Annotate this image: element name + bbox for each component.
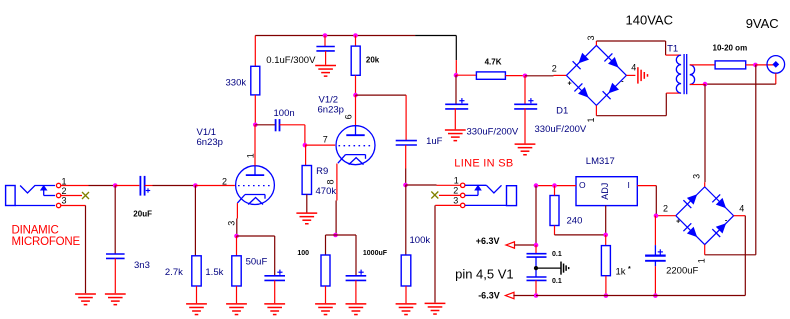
svg-text:10-20 om: 10-20 om (713, 44, 748, 53)
wire D1 pin1 down (595, 105, 597, 115)
label 1000uF (363, 250, 388, 257)
svg-text:+: + (568, 81, 572, 88)
label R9 (316, 166, 328, 177)
svg-text:3: 3 (226, 221, 236, 226)
wire 2200uF to rail (654, 266, 656, 294)
wire node A to C 20uF (115, 185, 139, 187)
pin 3 label V1/1 rotated (226, 221, 236, 226)
wire V1/2 cathode run (335, 201, 337, 236)
wire node B to grid V1/1 (195, 185, 235, 187)
label 140VAC (626, 13, 673, 28)
wire D2 pin2 stub (658, 215, 676, 217)
tube triode V1/1 (236, 166, 275, 205)
svg-text:-: - (621, 79, 624, 86)
wire node E to C 50uF (237, 236, 275, 276)
pin 3 label D2 rotated (692, 174, 702, 179)
wire C 0.1 bottom to rail (535, 280, 537, 293)
wire node L to D2 pin3 (704, 84, 706, 182)
svg-text:100k: 100k (410, 235, 431, 246)
wire D1 pin1 to T1 (596, 93, 666, 116)
svg-text:20uF: 20uF (133, 210, 152, 219)
resistor 2.7k (192, 256, 201, 286)
label 1k (616, 267, 626, 278)
wire C20uF red stub (145, 185, 153, 187)
plus label D1 (568, 81, 572, 88)
wire LM317 out (536, 185, 576, 187)
wire node J to C 330uF-2 (524, 76, 526, 104)
wire jack pin1 to node A (61, 185, 89, 187)
plus label D2 (676, 219, 680, 226)
node G junction anode V1/2 (353, 93, 358, 98)
pin O label (579, 180, 586, 190)
wire D2 pin1 stub (704, 245, 706, 255)
svg-text:1: 1 (454, 176, 459, 186)
wire node C to C 100n (255, 124, 275, 126)
resistor 1k* (601, 246, 610, 276)
svg-text:*: * (628, 266, 631, 273)
ground R9 (296, 213, 317, 224)
wire 3n3 to ground (114, 258, 116, 293)
ground 330uF-1 (445, 130, 466, 141)
capacitor 50uF (264, 270, 285, 281)
resistor 4.7K (476, 72, 505, 79)
pin 1 label D1 rotated (586, 117, 596, 122)
wire V1/2 pin8 down (336, 164, 338, 201)
capacitor 0.1uF/300V (316, 47, 334, 51)
svg-text:470k: 470k (316, 186, 337, 197)
wire into T1 primary bottom (666, 92, 681, 94)
ground 0.1uF (315, 66, 336, 77)
svg-text:100: 100 (297, 250, 309, 257)
svg-text:1.5k: 1.5k (205, 267, 223, 278)
wire V1/1 cathode run (236, 219, 238, 237)
ground D1 pin4 (638, 67, 648, 83)
pin 2 label D1 (552, 64, 557, 74)
wire node K to plug (755, 64, 775, 66)
wire 100n to node D (280, 125, 305, 145)
label 100k (410, 235, 431, 246)
label 330k (226, 77, 247, 88)
svg-text:-6.3V: -6.3V (478, 291, 500, 301)
ground 3n3 (105, 294, 126, 305)
svg-text:2: 2 (453, 186, 458, 196)
label 100n (274, 108, 295, 119)
label 2200uF (666, 266, 698, 277)
wire down to C 1uF (405, 95, 407, 140)
node C junction (253, 123, 258, 128)
svg-text:1: 1 (696, 258, 706, 263)
pin 1 label J2 (454, 176, 459, 186)
wire node A to C 3n3 (114, 186, 116, 254)
svg-text:6n23p: 6n23p (318, 105, 344, 116)
wire negative rail (536, 295, 745, 297)
svg-text:I: I (628, 180, 630, 190)
label LINE IN SB (454, 157, 513, 169)
ground 100 (315, 304, 336, 315)
svg-text:4: 4 (631, 63, 636, 73)
wire D2 pin4 down (744, 216, 746, 296)
wire 330k to node C (254, 95, 256, 125)
wire D1 pin4 stub (626, 74, 635, 76)
label 330uF/200V first (467, 126, 519, 137)
capacitor 0.1 bottom (527, 277, 547, 280)
wire 1k to rail (605, 276, 607, 294)
wire D1 pin3 up (595, 41, 597, 45)
svg-text:3n3: 3n3 (134, 260, 150, 271)
wire 1000uF to ground (355, 280, 357, 303)
ground 50uF (264, 304, 285, 315)
pin 2 label D2 (663, 204, 668, 214)
label 20k (366, 55, 380, 64)
capacitor 1uF (396, 141, 417, 145)
wire node F to C 330uF-1 (455, 75, 457, 104)
svg-text:O: O (579, 180, 586, 190)
label 240 (567, 215, 583, 226)
wire -6.3V (513, 295, 534, 297)
svg-text:R9: R9 (316, 166, 328, 177)
tube triode V1/2 (336, 126, 375, 165)
pin 2 label V1/1 (222, 176, 227, 186)
bridge rectifier D1 (566, 45, 626, 105)
pin 8 label V1/2 rotated (325, 179, 335, 184)
wire node I to R 100k (405, 185, 407, 255)
node J junction (523, 74, 528, 79)
label 4.7K (485, 58, 502, 67)
svg-text:2.7k: 2.7k (165, 267, 183, 278)
minus label D1 (621, 79, 624, 86)
pin 3 label J2 (453, 195, 458, 205)
ground heater mid (561, 262, 569, 275)
wire 330uF-1 to ground (454, 108, 456, 129)
label star (628, 266, 631, 273)
wire out down (535, 186, 537, 243)
svg-text:4.7K: 4.7K (485, 58, 502, 67)
capacitor 20uF input (140, 176, 150, 196)
pin 1 label D2 rotated (696, 258, 706, 263)
svg-text:6n23p: 6n23p (197, 137, 223, 148)
wire 2.7k to ground (196, 286, 198, 303)
node D junction (303, 143, 308, 148)
wire 10-20om to node K (746, 64, 754, 66)
wire J2 pin2 stub (439, 194, 460, 196)
resistor 100k (401, 255, 411, 286)
node T heater mid (534, 266, 538, 270)
node L junction T1 sec bottom (703, 82, 708, 87)
no-connect X jack pin2 (82, 192, 89, 199)
node A junction (113, 183, 118, 188)
transformer T1 (676, 54, 694, 94)
svg-text:D1: D1 (556, 106, 568, 117)
minus label D2 (725, 217, 728, 224)
svg-text:330uF/200V: 330uF/200V (467, 126, 519, 137)
svg-text:1000uF: 1000uF (363, 250, 388, 257)
node B junction (193, 183, 198, 188)
wire V1/1 pin3 down (236, 203, 238, 218)
node rail 0.1uF (323, 33, 328, 38)
label -6.3V (478, 291, 500, 301)
pin 1 label (62, 177, 67, 187)
svg-text:330uF/200V: 330uF/200V (535, 124, 587, 135)
label 6n23p V1/2 (318, 105, 344, 116)
svg-text:2200uF: 2200uF (666, 266, 698, 277)
wire jack pin2 stub (61, 195, 82, 197)
node Q junction ADJ (603, 233, 608, 238)
wire node C to V1/1 anode (254, 125, 256, 166)
svg-text:2: 2 (663, 204, 668, 214)
node N junction 240 top (552, 183, 557, 188)
wire into T1 primary top (666, 54, 681, 56)
pin 1 label V1/1 rotated (245, 153, 255, 158)
wire 100k to ground (405, 286, 407, 303)
resistor 1.5k (232, 256, 241, 286)
wire 0.1uF to ground (325, 51, 327, 65)
svg-text:6: 6 (344, 114, 354, 119)
node K junction 9VAC (753, 63, 758, 68)
label LM317 (586, 156, 615, 167)
wire B+ rail (255, 35, 415, 37)
svg-text:+6.3V: +6.3V (476, 236, 500, 246)
capacitor 100n (276, 119, 280, 131)
wire jack pin3 down (85, 206, 87, 294)
node U junction rail -6.3 (534, 293, 539, 298)
capacitor 3n3 (106, 254, 125, 258)
wire B+ rail black part (415, 36, 456, 61)
wire 1uF to node I (405, 169, 407, 186)
wire D2 pin4 stub (734, 215, 746, 217)
wire 240 top stub (554, 186, 556, 196)
label 0.1uF/300V (266, 55, 316, 66)
ground 100k (396, 304, 417, 315)
pin 4 label D2 (739, 203, 744, 213)
svg-text:3: 3 (692, 174, 702, 179)
wire jack pin3 (61, 205, 86, 207)
wire node G to V1/2 anode (355, 95, 357, 126)
wire node H to C 1000uF (336, 235, 357, 276)
node E junction cathode V1/1 (234, 234, 239, 239)
label MICROFONE (12, 236, 81, 248)
resistor 240 (550, 196, 559, 226)
node F junction B+ (454, 73, 459, 78)
regulator U1 LM317 (576, 177, 637, 206)
wire to LINE jack pin1 (437, 184, 461, 186)
wire ADJ node to 1k (605, 235, 607, 246)
resistor 100 (321, 255, 330, 286)
wire 50uF to ground (274, 280, 276, 303)
capacitor 1000uF (346, 270, 367, 281)
pin 7 label V1/2 (323, 135, 328, 145)
svg-text:0.1: 0.1 (552, 278, 562, 285)
wire node J to bridge D1 (525, 75, 554, 77)
resistor R9 470k (302, 166, 311, 195)
svg-text:7: 7 (323, 135, 328, 145)
svg-text:240: 240 (567, 215, 583, 226)
wire plug sleeve to node L (705, 83, 776, 85)
wire node A run (89, 185, 116, 187)
label 6n23p V1/1 (197, 137, 223, 148)
wire in down (655, 186, 657, 214)
label pin 4,5 V1 (455, 266, 514, 281)
no-connect X J2 pin2 (431, 192, 438, 199)
ground 330uF-2 (515, 144, 536, 155)
capacitor 2200uF (645, 245, 666, 266)
label +6.3V (476, 236, 500, 246)
pin I label (628, 180, 630, 190)
label V1/2 (319, 94, 339, 105)
wire node P to C 0.1 top (535, 245, 537, 253)
wire to D2 pin1 (705, 254, 756, 256)
capacitor 0.1 top (527, 254, 547, 257)
svg-text:LM317: LM317 (586, 156, 615, 167)
ground 2.7k (186, 304, 207, 315)
node R junction rail 1k (604, 293, 609, 298)
label 9VAC (746, 16, 779, 31)
wire 330uF-2 to ground (524, 108, 526, 143)
svg-text:2: 2 (222, 176, 227, 186)
wire C20uF to node B (153, 185, 196, 187)
label 3n3 (134, 260, 150, 271)
connector 9VAC plug (767, 56, 785, 74)
svg-text:20k: 20k (366, 55, 380, 64)
wire node K down (755, 65, 757, 255)
resistor 330k (251, 66, 260, 95)
wire D1 pin3 to T1 (596, 41, 665, 55)
svg-text:4: 4 (739, 203, 744, 213)
wire ADJ down (605, 206, 607, 234)
label 10-20 om (713, 44, 748, 53)
capacitor 330uF/200V first (445, 98, 468, 109)
wire 240 to ADJ node (555, 234, 604, 236)
wire node B down to R 2.7k (194, 186, 196, 256)
wire rail to C 0.1uF (324, 36, 326, 47)
node O junction out corner (534, 183, 539, 188)
label V1/1 (197, 127, 217, 138)
node I junction output (403, 183, 408, 188)
svg-text:9VAC: 9VAC (746, 16, 779, 31)
svg-text:3: 3 (453, 195, 458, 205)
wire T1 sec top (690, 64, 715, 66)
wire bridge D1 pin2 stub (554, 74, 567, 76)
wire rail to R 330k (254, 36, 256, 67)
bridge rectifier D2 (676, 187, 734, 245)
wire LM317 in (637, 185, 656, 187)
svg-text:pin 4,5 V1: pin 4,5 V1 (455, 266, 514, 281)
wire node H to R 100 (326, 235, 336, 255)
wire rail to R 20k (355, 36, 357, 47)
svg-text:1: 1 (586, 117, 596, 122)
node P junction +6.3V (534, 243, 539, 248)
wire T1 sec bottom (690, 84, 705, 86)
label D1 (556, 106, 568, 117)
wire node I to jack (406, 184, 437, 186)
label 330uF/200V second (535, 124, 587, 135)
arrow -6.3V (505, 292, 514, 298)
ground 1.5k (226, 304, 247, 315)
ground heater mid wire (536, 267, 561, 269)
label 0.1 bottom (552, 278, 562, 285)
svg-text:LINE IN SB: LINE IN SB (454, 157, 513, 169)
wire 100 to ground (325, 286, 327, 303)
svg-text:1k: 1k (616, 267, 626, 278)
wire R9 to ground (306, 194, 308, 212)
svg-text:3: 3 (62, 196, 67, 206)
connector J2 line in (461, 183, 517, 207)
arrow +6.3V (506, 242, 515, 248)
svg-text:0.1uF/300V: 0.1uF/300V (266, 55, 316, 66)
wire J2 pin3 (435, 204, 460, 206)
node rail 20k (353, 33, 358, 38)
wire heater mid (535, 257, 537, 277)
resistor 20k (351, 46, 360, 75)
pin 2 label J2 (453, 186, 458, 196)
wire 1uF down (405, 145, 407, 168)
wire node D to R9 (305, 145, 307, 165)
label T1 (667, 43, 678, 54)
svg-text:ADJ: ADJ (600, 183, 610, 200)
svg-text:8: 8 (325, 179, 335, 184)
wire 1.5k to ground (236, 286, 238, 303)
svg-text:3: 3 (586, 35, 596, 40)
svg-text:1uF: 1uF (426, 136, 443, 147)
wire 240 bottom (554, 226, 556, 235)
svg-text:140VAC: 140VAC (626, 13, 673, 28)
wire D2 pin3 stub (704, 182, 706, 187)
ground jack sleeve (75, 294, 96, 305)
wire +6.3V (515, 244, 535, 246)
wire node M to C 2200uF (654, 216, 656, 245)
pin 3 label (62, 196, 67, 206)
svg-text:+: + (676, 219, 680, 226)
svg-text:MICROFONE: MICROFONE (12, 236, 81, 248)
pin 4 label D1 (631, 63, 636, 73)
resistor 10-20 om (715, 61, 746, 69)
connector J1 microphone jack (6, 183, 61, 207)
capacitor 330uF/200V second (514, 98, 537, 109)
label 0.1 top (552, 251, 562, 258)
label 470k (316, 186, 337, 197)
node M junction raw DC (654, 213, 659, 218)
pin 6 label V1/2 rotated (344, 114, 354, 119)
label 100 (297, 250, 309, 257)
svg-text:330k: 330k (226, 77, 247, 88)
svg-text:100n: 100n (274, 108, 295, 119)
wire node D to grid V1/2 (305, 144, 335, 146)
pin 3 label D1 rotated (586, 35, 596, 40)
svg-text:50uF: 50uF (246, 257, 268, 268)
label 2.7k (165, 267, 183, 278)
label DINAMIC (12, 224, 59, 236)
wire node E to R 1.5k (236, 236, 238, 256)
label 50uF (246, 257, 268, 268)
svg-text:-: - (725, 217, 728, 224)
label 20uF (133, 210, 152, 219)
wire node G to C 1uF (356, 94, 407, 96)
pin ADJ label (600, 183, 610, 200)
wire 4.7K to node J (505, 75, 522, 77)
ground J2 (425, 303, 446, 314)
node S junction rail 2200uF (653, 293, 658, 298)
wire J2 pin3 down (434, 205, 436, 302)
svg-text:2: 2 (552, 64, 557, 74)
wire plug sleeve down (775, 73, 777, 84)
pin 2 label (62, 186, 67, 196)
node H junction cathode V1/2 (333, 233, 338, 238)
wire node F to R 4.7K (456, 74, 476, 76)
label 1uF (426, 136, 443, 147)
wire 20k to node G (355, 75, 357, 95)
label 1.5k (205, 267, 223, 278)
svg-text:0.1: 0.1 (552, 251, 562, 258)
svg-text:DINAMIC: DINAMIC (12, 224, 59, 236)
